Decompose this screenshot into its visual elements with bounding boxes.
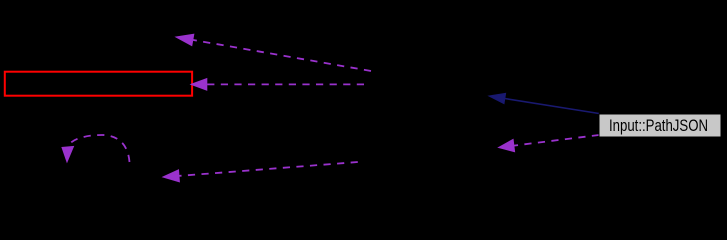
usage edge to top-left node bbox=[176, 34, 371, 71]
self-loop usage edge on bottom-left node bbox=[62, 135, 130, 162]
truncated node (red box) bbox=[5, 72, 192, 96]
inheritance edge (blue) from Input::PathJSON to middle node bbox=[489, 93, 599, 113]
usage edge from Input::PathJSON to middle-lower node bbox=[499, 135, 600, 152]
usage edge to red box bbox=[191, 79, 364, 91]
node Input::PathJSON bbox=[599, 114, 721, 137]
svg-text:Input::PathJSON: Input::PathJSON bbox=[609, 117, 708, 135]
usage edge to bottom-left node bbox=[163, 162, 358, 182]
